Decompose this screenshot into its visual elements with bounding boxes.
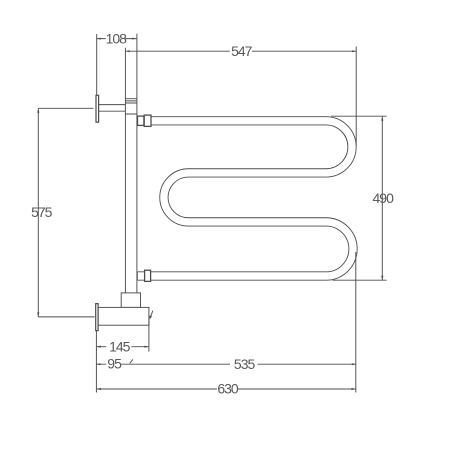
bottom wall plate bbox=[96, 304, 98, 331]
dimension 490 extension top bbox=[331, 115, 387, 117]
wall flange plate top bbox=[96, 95, 99, 122]
dimension 108 extension left bbox=[96, 34, 98, 95]
electrical box bbox=[98, 307, 149, 325]
dimension 575 line bbox=[37, 108, 39, 317]
top collar A bbox=[138, 116, 144, 125]
bottom collar bbox=[145, 270, 151, 281]
flange arm tube bbox=[99, 105, 126, 112]
dimension 145 extension right bbox=[148, 320, 150, 352]
serpentine towel rail tube inner white bbox=[138, 121, 353, 276]
dimension 490 line bbox=[381, 116, 383, 280]
svg-text:95: 95 bbox=[107, 356, 122, 372]
swivel block bbox=[121, 293, 140, 308]
svg-text:535: 535 bbox=[234, 356, 256, 372]
top collar B bbox=[144, 115, 151, 126]
svg-text:547: 547 bbox=[231, 43, 253, 59]
dimension 575 extension top bbox=[38, 107, 93, 109]
svg-text:575: 575 bbox=[31, 204, 53, 220]
left common extension line bbox=[95, 331, 97, 393]
dimension 95 / 535 line bbox=[96, 363, 356, 365]
svg-text:490: 490 bbox=[373, 190, 395, 206]
svg-text:630: 630 bbox=[217, 381, 239, 397]
box edge leader arrow bbox=[151, 311, 153, 317]
dimension 145 line bbox=[96, 346, 148, 348]
dimension 575 extension bottom bbox=[38, 316, 94, 318]
dimension 547 line bbox=[126, 50, 357, 52]
post right edge / 108 right extension bbox=[136, 34, 138, 293]
post left edge bbox=[124, 48, 126, 293]
dimension 630 line bbox=[96, 388, 356, 390]
svg-text:145: 145 bbox=[109, 339, 131, 355]
dimension 108 line bbox=[97, 38, 137, 40]
svg-text:108: 108 bbox=[106, 30, 128, 46]
serpentine towel rail tube outer bbox=[138, 121, 354, 276]
95 dim tick bbox=[130, 359, 133, 363]
post joint band lines bbox=[125, 99, 136, 114]
dimension 490 extension bottom bbox=[333, 279, 387, 281]
dimension 535 extension right bbox=[355, 252, 357, 393]
dimension 547 extension right bbox=[355, 47, 357, 146]
